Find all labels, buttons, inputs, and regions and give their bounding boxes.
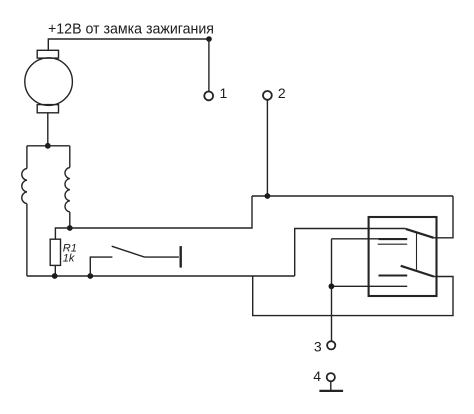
terminal 1: [204, 92, 213, 101]
svg-text:3: 3: [314, 338, 322, 354]
inductor L2: [65, 168, 70, 212]
mechanical link: [416, 233, 418, 270]
motor M1: [25, 50, 73, 112]
junction dot top right: [206, 36, 212, 42]
switch K1.1 blade: [406, 229, 434, 238]
switch K1.1 contact bar thick: [379, 238, 408, 240]
wire node A to right riser: [70, 196, 252, 228]
relay box K1: [369, 217, 437, 296]
switch SB1 blade: [112, 246, 145, 257]
wire bottom rail to box input: [295, 229, 406, 277]
wire top net horizontal: [252, 195, 453, 197]
wire terminal3 net to K1.1 contact: [332, 238, 379, 240]
node motor-junction dot: [45, 143, 51, 149]
wire right branch upper: [69, 146, 71, 168]
resistor R1: [50, 239, 60, 265]
node terminal3 junction dot: [329, 283, 335, 289]
ground stub: [330, 382, 332, 391]
wire K1.2 pole to bottom: [253, 276, 453, 316]
wire right upper riser: [434, 196, 453, 238]
switch SB1 stop bar: [179, 246, 181, 268]
terminal 3: [327, 341, 335, 349]
switch K1.1 contact bar thin: [378, 243, 408, 245]
switch SB1 riser and pole: [90, 257, 112, 276]
wire terminal 1 drop: [208, 39, 210, 91]
svg-text:1: 1: [220, 85, 228, 101]
terminal 2: [263, 91, 272, 100]
switch K1.2 contact bar thick: [379, 274, 408, 276]
terminal 4: [327, 373, 335, 381]
wire top horizontal: [48, 39, 209, 50]
svg-text:+12В от замка зажигания: +12В от замка зажигания: [48, 21, 214, 38]
node switch-riser dot: [87, 273, 93, 279]
wire terminal 2 drop: [266, 100, 268, 196]
wire terminal3 vertical: [331, 239, 333, 341]
wire branch top: [27, 145, 70, 147]
ground bar: [319, 390, 343, 392]
wire R1 bottom: [54, 265, 56, 276]
wire left branch lower: [26, 204, 28, 276]
svg-text:4: 4: [313, 368, 321, 384]
wire bottom rail: [27, 275, 295, 277]
svg-text:1k: 1k: [63, 253, 75, 265]
switch K1.2 input line: [331, 285, 407, 287]
svg-text:2: 2: [278, 85, 286, 101]
inductor L1: [22, 169, 27, 204]
switch SB1 output line: [145, 256, 179, 258]
wire node A to R1 top: [55, 228, 69, 239]
node R1-bottom dot: [52, 273, 58, 279]
node terminal2 junction dot: [265, 193, 271, 199]
node A junction dot: [67, 225, 73, 231]
switch K1.2 blade: [401, 266, 434, 277]
wire left branch upper: [26, 146, 28, 169]
wire right branch to node A: [69, 212, 71, 228]
wire motor bottom: [47, 113, 49, 146]
